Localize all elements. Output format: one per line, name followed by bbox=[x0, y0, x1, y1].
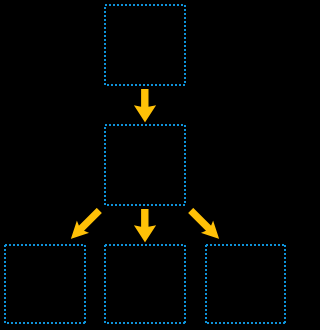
bottom-left box bbox=[5, 245, 85, 323]
arrow middle box to bottom-middle box bbox=[134, 209, 156, 242]
middle box bbox=[105, 125, 185, 205]
bottom-right box bbox=[206, 245, 285, 323]
top box bbox=[105, 5, 185, 85]
bottom-middle box bbox=[105, 245, 185, 323]
arrow middle box to bottom-right box bbox=[185, 204, 226, 245]
arrow top box to middle box bbox=[134, 89, 156, 122]
arrow middle box to bottom-left box bbox=[65, 204, 106, 245]
